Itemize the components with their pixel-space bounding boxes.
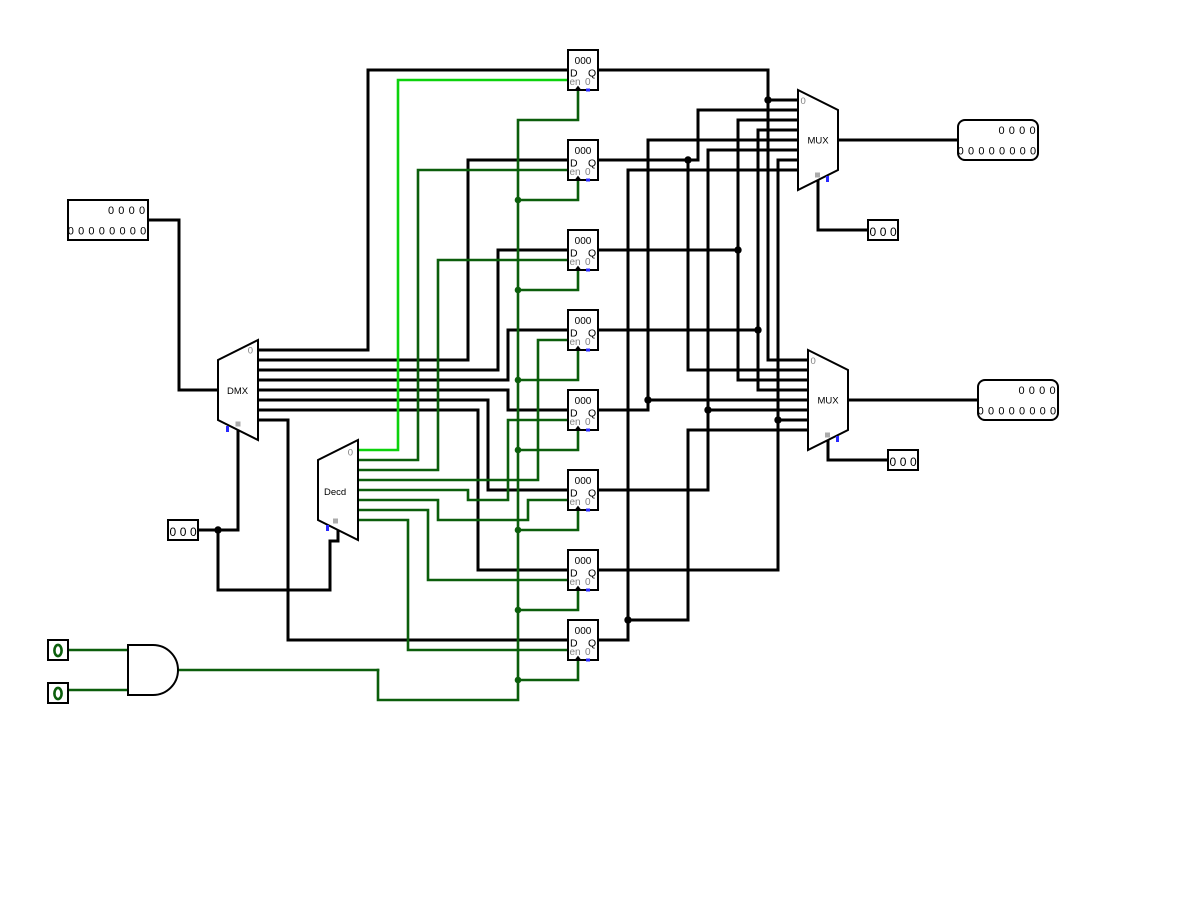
wire: DMX out5 to R6.D — [258, 400, 568, 490]
svg-text:0: 0 — [869, 225, 876, 239]
wire: Decd out0 to R1.en (high) — [358, 80, 568, 450]
wire: R3 branch to MUX2 in2 — [738, 379, 808, 382]
wire: AND output to clock trunk — [179, 669, 378, 672]
svg-text:en: en — [570, 77, 581, 88]
svg-text:0: 0 — [880, 225, 887, 239]
wire: pin S1 branch to Decd select — [218, 529, 338, 590]
svg-text:0: 0 — [585, 497, 591, 508]
junction: R3.Q at (738,250) — [734, 246, 741, 253]
svg-text:en: en — [570, 167, 581, 178]
svg-text:0: 0 — [989, 145, 995, 157]
junction: R2.Q at (688,160) — [684, 156, 691, 163]
svg-text:0: 0 — [978, 405, 984, 417]
wire: R8 branch to MUX2 in7 — [628, 430, 808, 620]
wire: DMX out0 to R1.D — [258, 70, 568, 350]
svg-text:en: en — [570, 497, 581, 508]
wire: input pin D1 to AND.A — [68, 649, 128, 652]
svg-text:0: 0 — [1030, 145, 1036, 157]
wire: R3 vertical to MUX1 in2 — [738, 120, 798, 380]
junction: clock trunk at (518,380) — [515, 377, 522, 384]
wire: DMX out6 to R7.D — [258, 410, 568, 570]
wire: DMX out1 to R2.D — [258, 160, 568, 360]
svg-text:0: 0 — [119, 225, 125, 237]
svg-text:0: 0 — [1040, 405, 1046, 417]
input pin S3 (MUX2 select, 3-bit) — [888, 450, 918, 470]
wire: R1.Q branch to MUX1 in0 — [768, 99, 798, 102]
register R6 (12-bit, value 000) — [568, 470, 598, 512]
junction: clock trunk at (518,200) — [515, 197, 522, 204]
junction: R6.Q at (708,410) — [704, 406, 711, 413]
svg-text:0: 0 — [190, 525, 197, 539]
svg-text:0: 0 — [139, 205, 145, 217]
wire: input pin A to DMX data input — [148, 220, 218, 390]
svg-text:0: 0 — [1029, 125, 1035, 137]
svg-text:0: 0 — [1020, 145, 1026, 157]
svg-text:0: 0 — [889, 455, 896, 469]
junction: R7.Q at (778,420) — [774, 416, 781, 423]
svg-text:0: 0 — [1039, 385, 1045, 397]
wire: DMX out3 to R4.D — [258, 330, 568, 380]
svg-text:0: 0 — [1050, 405, 1056, 417]
demultiplexer DMX — [218, 340, 258, 440]
wire: Decd out1 to R2.en — [358, 170, 568, 460]
svg-text:en: en — [570, 577, 581, 588]
input pin D2 (1-bit value 0) — [48, 683, 68, 703]
wire: DMX out7 to R8.D — [258, 420, 568, 640]
multiplexer MUX2 — [808, 350, 848, 450]
svg-text:MUX: MUX — [818, 396, 840, 407]
wire: R4 vertical to MUX1 in3 — [758, 130, 798, 390]
svg-text:DMX: DMX — [227, 386, 249, 397]
wire: R5 branch to MUX2 in4 — [648, 399, 808, 402]
decoder Decd — [318, 440, 358, 540]
svg-text:Decd: Decd — [324, 487, 346, 498]
svg-text:0: 0 — [1019, 125, 1025, 137]
wire: R8.Q to MUX1 in7 — [598, 170, 798, 640]
svg-text:000: 000 — [575, 146, 592, 157]
svg-text:0: 0 — [248, 346, 253, 357]
svg-text:0: 0 — [585, 167, 591, 178]
wire: R6.Q horizontal — [598, 489, 708, 492]
svg-text:0: 0 — [968, 145, 974, 157]
output pin B (12-bit value 000) — [958, 120, 1038, 160]
junction: R8.Q at (628,620) — [624, 616, 631, 623]
wire: DMX out4 to R5.D — [258, 390, 568, 410]
wire: R3.Q to MUX1 in2 — [598, 249, 738, 252]
wire: R4.Q horizontal — [598, 329, 758, 332]
svg-text:0: 0 — [585, 417, 591, 428]
svg-text:0: 0 — [585, 337, 591, 348]
svg-text:000: 000 — [575, 626, 592, 637]
wire: R2.Q branch to MUX2 in1 — [688, 160, 808, 370]
junction: R1.Q at (768,100) — [764, 96, 771, 103]
input pin A (12-bit value 000) — [68, 200, 148, 240]
svg-text:0: 0 — [180, 525, 187, 539]
wire: Decd out5 to R6.en — [358, 500, 568, 520]
wire: DMX out2 to R3.D — [258, 250, 568, 370]
AND gate U1 — [128, 645, 178, 695]
wire: Decd out4 to R5.en — [358, 420, 568, 500]
svg-text:0: 0 — [118, 205, 124, 217]
register R3 (12-bit, value 000) — [568, 230, 598, 272]
junction: R5.Q at (648,400) — [644, 396, 651, 403]
junction: clock trunk at (518,450) — [515, 447, 522, 454]
register R1 (12-bit, value 000) — [568, 50, 598, 92]
svg-text:en: en — [570, 417, 581, 428]
wire: clock branch to R2 — [518, 180, 578, 200]
input pin D1 (1-bit value 0) — [48, 640, 68, 660]
svg-text:0: 0 — [169, 525, 176, 539]
svg-text:0: 0 — [78, 225, 84, 237]
svg-text:0: 0 — [88, 225, 94, 237]
svg-text:0: 0 — [999, 145, 1005, 157]
junction: select net at (218,530) — [214, 526, 221, 533]
svg-text:0: 0 — [811, 356, 816, 367]
svg-text:0: 0 — [910, 455, 917, 469]
wire: Decd out3 to R4.en — [358, 340, 568, 480]
wire: R6 vertical to MUX1 in5 — [708, 150, 798, 490]
wire: input pin D2 to AND.B — [68, 689, 128, 692]
svg-text:0: 0 — [109, 225, 115, 237]
svg-text:0: 0 — [1009, 145, 1015, 157]
wire: MUX1 select to pin S2 — [818, 180, 868, 230]
svg-text:000: 000 — [575, 316, 592, 327]
wire: clock trunk — [378, 90, 578, 700]
svg-text:0: 0 — [585, 257, 591, 268]
wire: MUX2 output to pin C — [848, 399, 978, 402]
svg-text:000: 000 — [575, 236, 592, 247]
wire: R7 vertical to MUX1 in6 — [778, 160, 798, 570]
wire: R4 branch to MUX2 in3 — [758, 389, 808, 392]
junction: clock trunk at (518,680) — [515, 677, 522, 684]
wire: Decd out2 to R3.en — [358, 260, 568, 470]
wire: MUX2 select to pin S3 — [828, 440, 888, 460]
svg-text:0: 0 — [348, 448, 353, 459]
svg-text:0: 0 — [68, 225, 74, 237]
junction: clock trunk at (518,610) — [515, 607, 522, 614]
svg-text:0: 0 — [998, 405, 1004, 417]
svg-text:0: 0 — [988, 405, 994, 417]
input pin S1 (DMX/Decd select, 3-bit) — [168, 520, 198, 540]
svg-text:0: 0 — [130, 225, 136, 237]
input pin S2 (MUX1 select, 3-bit) — [868, 220, 898, 240]
svg-text:0: 0 — [1009, 405, 1015, 417]
wire: R5 vertical to MUX1 in4 — [648, 140, 798, 410]
wire: pin S1 to DMX select — [198, 430, 238, 530]
svg-text:0: 0 — [998, 125, 1004, 137]
svg-text:0: 0 — [900, 455, 907, 469]
svg-text:000: 000 — [575, 556, 592, 567]
svg-text:0: 0 — [1019, 405, 1025, 417]
svg-text:MUX: MUX — [808, 136, 830, 147]
wire: R7 branch to MUX2 in6 — [778, 419, 808, 422]
svg-text:0: 0 — [585, 647, 591, 658]
svg-text:0: 0 — [129, 205, 135, 217]
wire: clock branch to R7 — [518, 590, 578, 610]
svg-text:0: 0 — [1029, 385, 1035, 397]
svg-text:0: 0 — [1029, 405, 1035, 417]
junction: clock trunk at (518,290) — [515, 287, 522, 294]
svg-text:0: 0 — [890, 225, 897, 239]
junction: R4.Q at (758,330) — [754, 326, 761, 333]
svg-text:0: 0 — [978, 145, 984, 157]
svg-text:000: 000 — [575, 56, 592, 67]
register R4 (12-bit, value 000) — [568, 310, 598, 352]
wire: R5.Q horizontal — [598, 409, 648, 412]
svg-text:000: 000 — [575, 396, 592, 407]
wire: clock branch to R3 — [518, 270, 578, 290]
register R7 (12-bit, value 000) — [568, 550, 598, 592]
svg-text:0: 0 — [1009, 125, 1015, 137]
svg-text:0: 0 — [585, 77, 591, 88]
svg-text:en: en — [570, 647, 581, 658]
register R8 (12-bit, value 000) — [568, 620, 598, 662]
wire: R7.Q horizontal — [598, 569, 778, 572]
register R5 (12-bit, value 000) — [568, 390, 598, 432]
multiplexer MUX1 — [798, 90, 838, 190]
output pin C (12-bit value 000) — [978, 380, 1058, 420]
wire: R6 branch to MUX2 in5 — [708, 409, 808, 412]
svg-text:0: 0 — [1018, 385, 1024, 397]
wire: R1.Q vertical to MUX2 in0 — [598, 70, 808, 360]
wire: clock branch to R5 — [518, 430, 578, 450]
register R2 (12-bit, value 000) — [568, 140, 598, 182]
svg-text:0: 0 — [801, 96, 806, 107]
wire: clock branch to R8 — [518, 660, 578, 680]
wire: Decd out6 to R7.en — [358, 510, 568, 580]
svg-text:0: 0 — [108, 205, 114, 217]
svg-text:000: 000 — [575, 476, 592, 487]
svg-text:0: 0 — [1049, 385, 1055, 397]
svg-text:0: 0 — [585, 577, 591, 588]
wire: MUX1 output to pin B — [838, 139, 958, 142]
svg-text:0: 0 — [958, 145, 964, 157]
svg-text:0: 0 — [99, 225, 105, 237]
svg-text:0: 0 — [140, 225, 146, 237]
wire: clock branch to R6 — [518, 510, 578, 530]
svg-text:en: en — [570, 257, 581, 268]
wire: clock branch to R4 — [518, 350, 578, 380]
svg-text:en: en — [570, 337, 581, 348]
junction: clock trunk at (518,530) — [515, 527, 522, 534]
wire: R2.Q to MUX1 in1 — [598, 110, 798, 160]
wire: Decd out7 to R8.en — [358, 520, 568, 650]
